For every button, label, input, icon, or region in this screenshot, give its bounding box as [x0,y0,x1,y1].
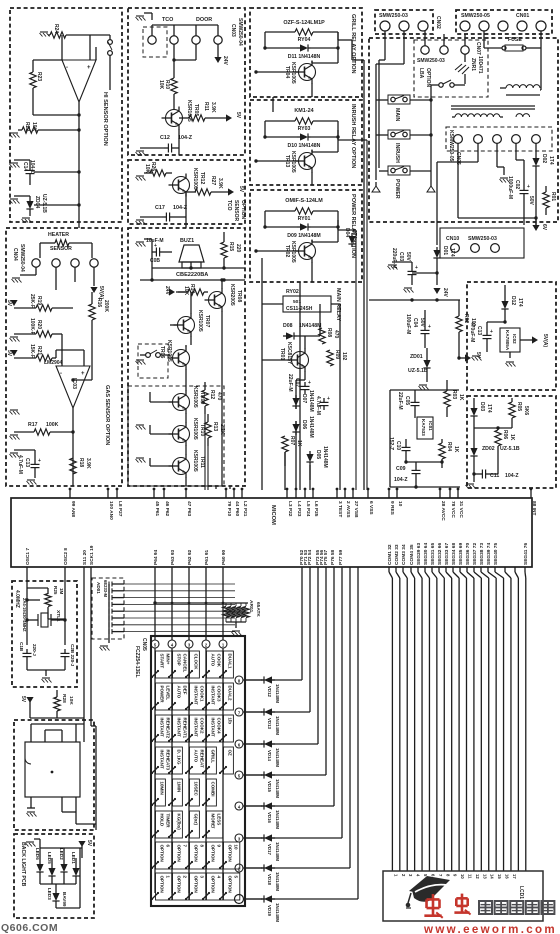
fuse F1 [484,30,541,90]
svg-text:SEG32 66: SEG32 66 [437,543,443,565]
diode D08 [283,304,322,340]
ground [136,360,146,463]
svg-text:SEG36 70: SEG36 70 [465,543,471,565]
svg-text:+: + [81,371,85,377]
svg-text:CN10: CN10 [446,236,459,242]
svg-text:1N4148M: 1N4148M [275,779,280,798]
diode VD16 [261,802,280,829]
svg-text:P61 91: P61 91 [204,549,210,565]
svg-text:R07: R07 [289,436,295,445]
wire [62,35,96,60]
diode VD14 [261,740,280,767]
capacitor C2B [61,644,76,670]
diode D10 [263,133,339,149]
capacitor C11 [472,452,519,482]
svg-text:SEG31 65: SEG31 65 [430,543,436,565]
svg-text:XTL1: XTL1 [55,610,61,622]
svg-text:OZF-S-124LM1P: OZF-S-124LM1P [283,20,325,26]
power 6V [458,143,547,231]
svg-text:DEF: DEF [183,686,188,695]
svg-text:OPTION: OPTION [211,876,216,893]
svg-text:SEG29 63: SEG29 63 [416,543,422,565]
resistor R20 [14,318,62,337]
svg-text:ZD02: ZD02 [482,446,495,452]
svg-text:COM1 32: COM1 32 [387,544,393,565]
svg-text:1K: 1K [453,446,459,453]
svg-text:1N4148M: 1N4148M [275,684,280,703]
capacitor C13 [14,450,41,478]
svg-text:CN01: CN01 [516,13,529,19]
ground [10,410,20,440]
svg-text:DOOR: DOOR [196,17,212,23]
resistor R13 [205,414,225,446]
labels [162,17,212,23]
transistor TR12 [169,168,206,197]
capacitor C02 [507,143,534,225]
wire [56,334,84,486]
svg-text:5V: 5V [6,350,12,357]
svg-text:TR11: TR11 [199,456,205,468]
svg-text:S11 20: S11 20 [82,550,88,565]
svg-text:1000uF-M: 1000uF-M [507,176,513,199]
svg-text:D05: D05 [315,450,321,459]
P70-P77 wires to keypad rows [245,567,358,899]
resistor R28 [54,690,74,718]
reset circuit box [467,396,556,488]
diode VD18 [261,864,280,891]
svg-text:1N4148M: 1N4148M [322,446,328,468]
watermark chongchong red glyphs [424,894,470,918]
svg-text:RY03: RY03 [298,126,311,132]
svg-text:P76 58: P76 58 [330,549,336,565]
svg-text:KSMW250-05: KSMW250-05 [448,130,454,162]
capacitor C04 [405,310,431,348]
svg-text:CLOCK: CLOCK [194,654,199,671]
ground [136,220,146,225]
crystal XTL1 [25,610,66,627]
svg-text:10: 10 [397,501,403,507]
keypad row 7 [235,708,262,716]
svg-text:POWER: POWER [394,179,400,199]
svg-text:REHEAT2: REHEAT2 [166,718,171,739]
resistor R12 [202,382,222,414]
svg-text:AR01: AR01 [248,600,254,613]
svg-text:R23: R23 [36,72,42,81]
svg-text:INSTANT: INSTANT [194,686,199,705]
svg-text:CN04: CN04 [12,248,18,261]
svg-text:24V: 24V [222,56,228,66]
svg-text:100 AN0: 100 AN0 [108,501,114,520]
svg-text:1T4: 1T4 [517,298,523,307]
resistor R15 [221,232,241,268]
svg-text:R17: R17 [28,422,38,428]
svg-text:+: + [490,329,493,335]
svg-text:OPTION: OPTION [194,845,199,862]
svg-text:R28: R28 [61,694,67,703]
wire OSC [27,567,65,645]
svg-text:5V: 5V [6,300,12,307]
LBA option box [414,40,488,97]
svg-text:R24: R24 [53,24,59,33]
wire relay column verticals [205,97,310,490]
svg-text:OPTION: OPTION [211,845,216,862]
svg-text:SMW250-05: SMW250-05 [461,13,490,19]
capacitor C0B [146,238,172,264]
svg-text:102: 102 [341,352,347,361]
svg-text:GAS SENSOR OPTION: GAS SENSOR OPTION [104,385,110,445]
svg-text:R09: R09 [334,350,340,359]
svg-text:TR10: TR10 [199,424,205,436]
svg-text:31 VCC: 31 VCC [458,501,464,518]
diode D01 [433,246,455,273]
svg-text:TCO: TCO [162,17,173,23]
svg-text:TR06: TR06 [159,346,165,358]
svg-text:10MIN: 10MIN [160,782,165,795]
svg-text:P77 59: P77 59 [338,549,344,565]
svg-text:KSR1005: KSR1005 [192,386,198,408]
power input box [369,38,558,222]
svg-text:STOP: STOP [177,654,182,666]
watermark url text [423,922,557,934]
svg-text:470: 470 [333,330,339,339]
gas sensor option label [104,385,110,445]
svg-text:KSR1005: KSR1005 [166,340,172,362]
svg-text:COM2 33: COM2 33 [394,544,400,565]
buzzer BUZ1 [176,238,208,278]
diode LED3 BAV99 [47,848,80,908]
connector CN03 [148,18,243,46]
svg-text:50V: 50V [528,196,534,206]
svg-text:10K: 10K [158,80,164,90]
GAS sensor option box [6,228,122,486]
svg-text:14: 14 [490,874,495,879]
svg-text:C13: C13 [476,326,482,335]
svg-text:MAIN: MAIN [394,108,400,122]
svg-text:AD01: AD01 [96,582,101,594]
svg-text:KA7533: KA7533 [421,419,426,436]
resistor R07 [282,436,302,452]
back light PCB box [14,834,94,918]
svg-text:LED3: LED3 [47,888,52,900]
resistor R01 [543,186,556,215]
svg-text:TR12: TR12 [199,172,205,184]
keypad row 1 [235,895,263,904]
EEPROM IC box [14,720,94,830]
connector CN04 [12,244,98,272]
svg-text:4.7uF-M: 4.7uF-M [17,455,23,474]
MICOM top pins [69,488,537,522]
svg-text:SMW250-03: SMW250-03 [417,58,445,64]
power 5V [6,350,18,357]
svg-text:C03: C03 [398,252,404,261]
svg-text:KSR1005: KSR1005 [192,418,198,440]
svg-text:78 VCC: 78 VCC [450,501,456,518]
svg-text:1N4148M: 1N4148M [275,872,280,891]
ground [12,267,37,282]
svg-text:2A4-19430-4MHZ: 2A4-19430-4MHZ [22,598,27,632]
wire feedback [33,60,81,222]
diode VD15 [261,771,280,798]
resistor R27 [186,176,228,195]
svg-text:OPTION: OPTION [177,845,182,862]
svg-text:470uF-M: 470uF-M [469,322,475,342]
5V(A) regulator box [467,282,556,390]
svg-text:3 TEST: 3 TEST [337,501,343,517]
svg-text:www.eeworm.com: www.eeworm.com [423,922,557,934]
diode D02 [532,143,554,225]
svg-text:10uF-M: 10uF-M [146,238,164,244]
svg-text:R21: R21 [36,346,42,355]
svg-text:BUZ1: BUZ1 [180,238,194,244]
svg-text:10K: 10K [183,286,189,296]
svg-text:88 INT: 88 INT [531,501,537,515]
LED LED1 [71,852,80,879]
svg-text:C14: C14 [22,162,28,171]
resistor R23 [30,72,42,88]
svg-text:OPTION: OPTION [160,845,165,862]
svg-text:C10: C10 [395,441,401,450]
svg-text:1MIN: 1MIN [177,782,182,793]
svg-text:1K: 1K [296,440,302,447]
svg-text:1N4148M: 1N4148M [275,903,280,922]
svg-text:27 VSB: 27 VSB [353,501,359,518]
svg-text:R13: R13 [212,422,218,431]
svg-text:OZ: OZ [228,750,233,757]
capacitor C03 [391,248,418,285]
svg-text:10K: 10K [31,122,37,132]
svg-text:+: + [527,184,530,190]
svg-text:C02: C02 [514,180,520,189]
svg-text:200K: 200K [103,300,109,312]
LCD module LCD01 [383,871,543,921]
connector CN07 [417,30,481,87]
IC02 KA7805A [487,320,533,352]
ground [136,173,153,181]
svg-text:REHEAT3: REHEAT3 [166,750,171,771]
svg-text:9 RES: 9 RES [389,501,395,516]
svg-text:P75 57: P75 57 [323,549,329,565]
wire [76,812,96,824]
svg-text:5V: 5V [20,696,26,703]
diode VD13 [261,708,280,735]
svg-text:C13: C13 [24,458,30,467]
svg-text:104-Z: 104-Z [505,473,519,479]
power 5V [6,300,18,307]
svg-text:OPTION: OPTION [160,876,165,893]
power relay label [350,194,356,258]
svg-text:COOK2: COOK2 [200,718,205,735]
svg-text:10K: 10K [68,696,74,705]
svg-text:12: 12 [475,874,480,879]
MICOM bottom pins [25,543,529,565]
heater sensor label [48,232,72,252]
svg-text:P62 92: P62 92 [187,549,193,565]
svg-text:LED1: LED1 [71,852,76,864]
IC MICOM [11,498,532,567]
svg-text:3.9K: 3.9K [85,458,91,469]
relay contact POWER [379,166,431,199]
transistor TR05 [162,100,200,130]
resistor R24 [50,32,66,38]
svg-text:KA7805A: KA7805A [505,330,510,351]
svg-text:BACK LIGHT PCB: BACK LIGHT PCB [20,842,26,887]
svg-text:LM2904: LM2904 [44,360,63,366]
inrush relay label [350,104,356,168]
svg-text:50V: 50V [419,318,425,328]
diode VD17 [261,834,280,861]
keypad row 6 [235,740,262,748]
svg-text:SEG39 74: SEG39 74 [486,543,492,565]
svg-text:L2 P21: L2 P21 [242,501,248,517]
diode D03 [470,398,492,428]
svg-text:C09: C09 [396,466,406,472]
ground [136,151,146,156]
svg-text:UZ-5.1B: UZ-5.1B [500,446,520,452]
svg-text:10K: 10K [144,164,150,174]
svg-text:10: 10 [460,874,465,879]
resistor R16 [71,292,109,382]
diode D04b [348,233,355,247]
svg-text:MICOM: MICOM [270,505,276,525]
power 5V(A) [90,286,104,299]
svg-text:4.0MHZ: 4.0MHZ [14,590,20,608]
grill relay label [350,14,356,74]
transistor TR06 [159,340,190,380]
svg-text:SEG40 75: SEG40 75 [493,543,499,565]
switch contact [108,35,113,90]
svg-text:VD17: VD17 [267,844,272,856]
svg-text:TR07: TR07 [204,315,210,327]
svg-text:CN07: CN07 [475,42,481,55]
svg-text:10SEC: 10SEC [194,782,199,797]
wire [30,567,96,830]
svg-text:LED5: LED5 [47,852,52,864]
svg-text:99 AN8: 99 AN8 [70,501,76,517]
svg-text:5V: 5V [235,112,241,119]
ground [40,32,50,37]
svg-text:VD12: VD12 [267,686,272,698]
svg-text:C12: C12 [160,135,170,141]
svg-text:OPTION: OPTION [425,68,431,88]
svg-text:13: 13 [482,874,487,879]
svg-text:R16: R16 [96,298,102,307]
capacitor C08b [315,396,330,415]
svg-text:KSR2005: KSR2005 [229,284,235,306]
LCD pin numbers [393,874,517,879]
resistor R06 [474,426,515,452]
resistor R04 [439,439,459,468]
svg-text:R11: R11 [203,102,209,111]
capacitor C07 [287,374,311,394]
svg-text:44 P60: 44 P60 [234,501,240,517]
capacitor C10 [388,437,411,462]
capacitor C17 [140,193,188,224]
svg-text:VD14: VD14 [267,750,272,762]
svg-text:220: 220 [235,244,241,253]
keypad row 2 [235,864,262,872]
wire [178,129,180,131]
wire [56,267,94,290]
svg-text:AUTO: AUTO [177,686,182,699]
svg-text:REHEAT: REHEAT [200,750,205,768]
wire stubs upper [79,222,230,489]
svg-text:1T4: 1T4 [548,156,554,165]
connector CN01 [460,13,546,31]
transistor TR09 [150,380,205,418]
svg-text:L4 P23: L4 P23 [296,501,302,517]
svg-text:R06: R06 [502,430,508,439]
svg-text:24V: 24V [442,288,448,298]
svg-text:DUAL1: DUAL1 [228,654,233,669]
svg-text:CBE2220BA: CBE2220BA [176,272,208,278]
svg-text:1M: 1M [59,588,64,595]
relay RY02 [262,289,340,312]
svg-text:R19: R19 [36,296,42,305]
backlight label [20,842,26,887]
capacitor C14 [14,160,81,185]
svg-text:22uF-M: 22uF-M [287,374,293,392]
svg-text:KSR1005: KSR1005 [197,310,203,332]
resistor R05 [509,398,529,428]
keypad row 8 [235,676,262,684]
svg-text:COM4 35: COM4 35 [409,544,415,565]
svg-text:COOK3: COOK3 [217,686,222,703]
connector CN02 [379,13,441,31]
svg-text:C1B: C1B [19,642,24,652]
svg-text:VD19: VD19 [267,905,272,917]
transistor TR07 [170,292,210,345]
resistor R02 [456,300,476,358]
keypad row 5 [235,771,262,779]
relay contact MAIN [376,95,431,135]
wire [392,262,439,285]
svg-text:R04: R04 [446,442,452,451]
ground [419,385,429,390]
svg-text:C05: C05 [404,396,410,405]
svg-text:P72 54: P72 54 [307,549,313,565]
keypad row 4 [235,802,262,810]
svg-text:50V: 50V [405,252,411,262]
svg-text:6 VSS: 6 VSS [368,501,374,515]
svg-text:INRUSH RELAY OPTION: INRUSH RELAY OPTION [350,104,356,168]
inrush relay option box [250,100,362,185]
svg-text:152-Z: 152-Z [388,437,394,450]
main relay label [335,288,341,321]
svg-text:R15: R15 [228,242,234,251]
relay RY04 [265,20,338,63]
ground [472,352,516,367]
capacitor C13b [469,322,493,352]
svg-text:INSTANT: INSTANT [211,686,216,705]
diode D12 [501,285,523,322]
svg-text:P60 90: P60 90 [221,549,227,565]
svg-text:79 P10: 79 P10 [226,501,232,517]
LED LED6 [35,848,44,875]
svg-text:1T4: 1T4 [449,248,455,257]
svg-text:R20: R20 [36,320,42,329]
svg-text:CN02: CN02 [435,16,441,29]
svg-text:TCO: TCO [226,200,232,211]
relay contact INRUSH [376,130,431,180]
diode D06 [292,416,314,438]
svg-text:+: + [38,458,41,464]
svg-text:MORE/: MORE/ [211,814,216,830]
transistor TR11 [150,450,205,486]
ground [497,143,510,182]
svg-text:VD16: VD16 [267,812,272,824]
power 24V [433,288,448,298]
heater resistor [40,240,92,258]
